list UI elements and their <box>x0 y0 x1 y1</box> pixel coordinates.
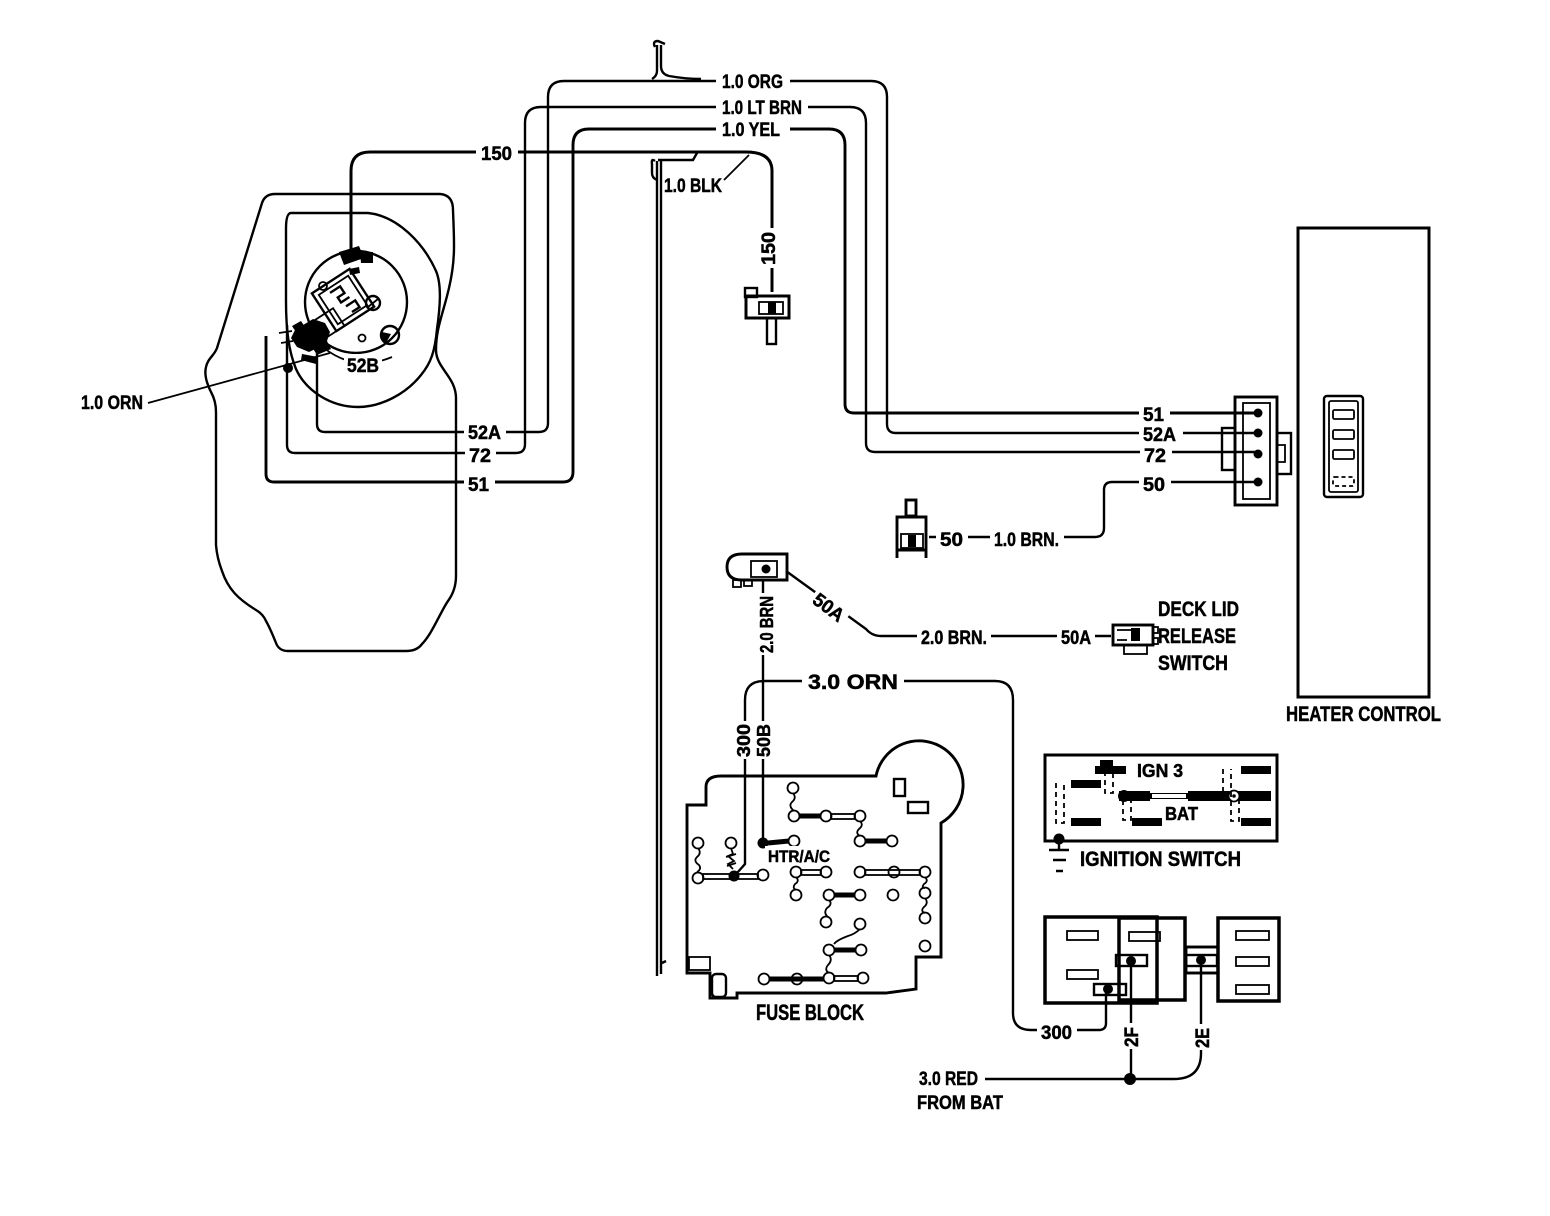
svg-text:IGNITION SWITCH: IGNITION SWITCH <box>1080 848 1241 871</box>
svg-text:72: 72 <box>469 446 491 467</box>
label 1.0 YEL <box>716 118 790 141</box>
2E slot protrusion <box>1186 947 1218 973</box>
label 2.0 BRN. <box>917 627 991 649</box>
svg-text:HEATER CONTROL: HEATER CONTROL <box>1286 703 1441 726</box>
connector slots <box>1067 931 1269 994</box>
svg-text:1.0 YEL: 1.0 YEL <box>722 120 780 141</box>
blower resistor block (tilted) <box>312 269 374 331</box>
label 300 bottom <box>1037 1021 1077 1044</box>
label 1.0 ORG <box>716 70 790 93</box>
junction dot on 72 wire <box>283 363 293 373</box>
wire 150 / 1.0 BLK (blower ground lead to inline connector) <box>351 152 772 292</box>
fuse block outline <box>687 741 963 998</box>
blower housing outer boot outline <box>205 194 456 651</box>
svg-text:150: 150 <box>759 232 780 265</box>
label 150 (vertical) <box>759 228 780 268</box>
svg-text:300: 300 <box>734 724 754 757</box>
wire 50 (heater control pin 4 to inline connector, 1.0 BRN) <box>929 482 1256 537</box>
label 72 left <box>465 444 496 467</box>
blower motor circle <box>305 251 407 353</box>
svg-text:50: 50 <box>940 530 963 551</box>
wire 50A (2.0 BRN, inline connector to deck lid release switch) <box>786 571 1111 636</box>
label 51 right <box>1139 404 1170 426</box>
ignition ground <box>1054 834 1065 845</box>
svg-text:SWITCH: SWITCH <box>1158 652 1228 675</box>
label 52A right <box>1139 423 1183 446</box>
antenna bracket top <box>652 41 701 79</box>
HTR/A/C tap dot <box>758 838 769 849</box>
svg-text:1.0 BRN.: 1.0 BRN. <box>994 530 1059 551</box>
blower connector shroud <box>313 308 345 339</box>
label 2F vertical <box>1122 1023 1143 1049</box>
bottom connector right <box>1218 918 1279 1001</box>
svg-text:RELEASE: RELEASE <box>1158 625 1236 648</box>
wire 2F (connector to battery junction) <box>1130 963 1132 1079</box>
svg-text:50B: 50B <box>754 724 774 757</box>
label 52B <box>344 354 382 377</box>
svg-text:52B: 52B <box>347 356 379 377</box>
svg-text:300: 300 <box>1041 1023 1072 1044</box>
svg-text:51: 51 <box>1143 405 1164 426</box>
label 2E vertical <box>1193 1024 1214 1050</box>
svg-text:FUSE BLOCK: FUSE BLOCK <box>756 1000 864 1025</box>
antenna grommet lower <box>652 153 697 976</box>
wire 50B (2.0 BRN, inline connector down to fuse block HTR/A/C) <box>762 581 764 841</box>
svg-text:DECK LID: DECK LID <box>1158 598 1239 621</box>
label 300 vertical <box>734 721 754 759</box>
label 2.0 BRN vertical <box>757 593 777 655</box>
screw circle 2 <box>381 326 399 344</box>
ignition switch body <box>1045 755 1277 841</box>
svg-text:3.0 ORN: 3.0 ORN <box>808 671 898 694</box>
label 50A (deck lid) <box>1057 627 1095 649</box>
svg-text:52A: 52A <box>1143 425 1176 446</box>
screw circle 1 <box>366 296 380 310</box>
inline connector 50A <box>727 554 787 587</box>
label HTR/A/C <box>765 846 833 866</box>
svg-text:1.0 BLK: 1.0 BLK <box>664 176 722 197</box>
blower left connector (black) <box>291 319 331 364</box>
300 slot <box>1094 984 1126 995</box>
ignition dashed pin outlines <box>1056 769 1239 823</box>
label 50 right <box>1139 473 1171 496</box>
blower housing inner pocket outline <box>286 213 440 407</box>
label 1.0 BLK with callout <box>724 155 749 180</box>
heater control connector <box>1235 397 1277 505</box>
wire 300 / 3.0 ORN (fuse block feed to bottom connector) <box>737 681 1106 1030</box>
svg-text:72: 72 <box>1144 446 1166 467</box>
slider slots <box>1333 410 1354 419</box>
deck lid release switch connector <box>1113 625 1158 654</box>
wire 51 / 1.0 YEL (blower to heater control pin 1) <box>266 129 1256 482</box>
label 50A diagonal <box>806 587 852 629</box>
fuse bars <box>768 816 887 979</box>
bottom connector left <box>1045 917 1157 1003</box>
fuses: circles <box>693 783 931 985</box>
svg-text:50A: 50A <box>1061 628 1091 649</box>
fuse junction dot 300 <box>729 871 740 882</box>
label 50B vertical <box>754 721 774 759</box>
heater control slider bezel <box>1324 396 1363 497</box>
wire 52A / 1.0 ORG (blower to heater control pin 2) <box>317 81 1256 433</box>
2F slot <box>1116 955 1147 966</box>
svg-text:1.0 ORN: 1.0 ORN <box>81 393 143 414</box>
label BAT <box>1162 804 1202 824</box>
wire 2E (connector to battery junction) <box>985 963 1201 1079</box>
callout line 1.0 ORN <box>148 353 330 403</box>
svg-text:2F: 2F <box>1122 1027 1143 1047</box>
svg-text:2.0 BRN.: 2.0 BRN. <box>921 628 987 649</box>
svg-text:2E: 2E <box>1193 1028 1214 1048</box>
label 52A left <box>464 422 506 444</box>
svg-text:FROM BAT: FROM BAT <box>917 1093 1003 1114</box>
junction dot 3.0 RED / 2F / 2E <box>1124 1073 1136 1085</box>
bottom connector middle <box>1119 918 1185 1000</box>
svg-text:HTR/A/C: HTR/A/C <box>768 848 830 866</box>
label 72 right <box>1140 444 1172 467</box>
svg-text:51: 51 <box>468 475 489 496</box>
heater control panel <box>1298 228 1429 697</box>
blower top connector (black) <box>339 246 373 275</box>
fuse block top right rects <box>894 779 905 796</box>
label 1.0 LT BRN <box>716 96 808 119</box>
label 51 left <box>464 473 495 496</box>
label 3.0 ORN <box>802 671 904 694</box>
wire 72 / 1.0 LT BRN (blower to heater control pin 3) <box>287 107 1256 453</box>
52B pocket arc <box>318 343 392 363</box>
svg-text:2.0 BRN: 2.0 BRN <box>757 596 777 653</box>
fuse squiggles <box>695 793 926 973</box>
svg-text:BAT: BAT <box>1165 804 1198 824</box>
svg-text:1.0 LT BRN: 1.0 LT BRN <box>722 98 802 119</box>
ignition switch terminals <box>1071 760 1271 826</box>
svg-text:IGN 3: IGN 3 <box>1137 761 1183 781</box>
svg-text:3.0 RED: 3.0 RED <box>919 1069 978 1090</box>
connector pins <box>1254 409 1263 418</box>
svg-text:1.0 ORG: 1.0 ORG <box>722 72 783 93</box>
svg-text:50: 50 <box>1143 475 1165 496</box>
svg-text:52A: 52A <box>468 423 501 444</box>
inline connector 50 <box>897 500 926 558</box>
label 50 / 1.0 BRN. <box>936 528 968 551</box>
inline connector 150 <box>745 288 789 344</box>
label 150 (left) <box>476 142 518 165</box>
svg-text:150: 150 <box>481 144 512 165</box>
